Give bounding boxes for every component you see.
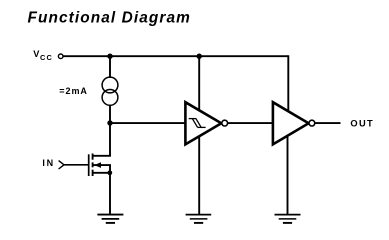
VCC terminal circle [58, 54, 63, 59]
channel segment source [92, 170, 94, 176]
channel segment drain [92, 154, 94, 160]
wire drain horizontal [93, 155, 111, 157]
wire current source top stub [109, 56, 111, 78]
junction dot body-source [107, 170, 112, 175]
wire drain vertical [109, 123, 111, 156]
ground G1 [97, 215, 123, 223]
wire node to T1 input [110, 122, 187, 124]
input arrow > [59, 161, 64, 169]
wire U1 output to U2 input [228, 122, 274, 124]
wire U2 to ground [287, 136, 289, 215]
junction dot at drain node [107, 120, 112, 125]
ground G2 [186, 215, 212, 223]
junction dot at T1 power tap [197, 54, 202, 59]
wire output [315, 122, 341, 124]
current source I1 (two overlapping circles) [102, 77, 118, 105]
svg-text:IN: IN [42, 158, 54, 168]
transistor Q1 NMOS [89, 154, 113, 177]
wire T2 power drop [287, 55, 289, 111]
wire VCC top rail [63, 55, 288, 57]
wire U1 to ground [198, 136, 200, 215]
body arrow head [94, 162, 101, 168]
junction dot at current source top [107, 54, 112, 59]
svg-text:CC: CC [40, 53, 53, 62]
svg-text:Functional Diagram: Functional Diagram [28, 10, 191, 27]
U2 output bubble [309, 120, 315, 126]
body wire [94, 164, 111, 166]
wire T1 power drop [198, 56, 200, 110]
hysteresis symbol [189, 119, 206, 128]
source wire [94, 172, 111, 174]
wire gate [64, 164, 89, 166]
op-amp U2 output buffer triangle [273, 102, 309, 144]
body to source vertical [109, 165, 111, 173]
node VCC label [33, 49, 53, 62]
op-amp U1 Schmitt buffer triangle [185, 102, 221, 144]
ground G3 [275, 215, 301, 223]
wire source to ground [109, 173, 111, 215]
channel segment body [92, 162, 94, 167]
wire current source bottom stub [109, 105, 111, 123]
gate bar [88, 154, 90, 176]
U1 output bubble [222, 120, 228, 126]
svg-text:OUT: OUT [350, 118, 374, 128]
svg-text:=2mA: =2mA [59, 86, 88, 96]
